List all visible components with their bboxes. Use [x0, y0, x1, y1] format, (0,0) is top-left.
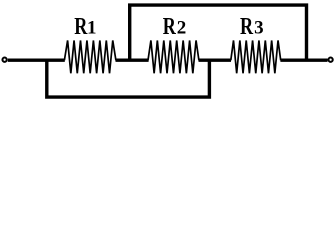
svg-text:R: R — [240, 13, 253, 40]
svg-text:2: 2 — [177, 17, 187, 38]
svg-text:R: R — [74, 13, 87, 40]
svg-text:1: 1 — [87, 17, 97, 38]
svg-text:R: R — [163, 13, 176, 40]
svg-text:3: 3 — [254, 17, 264, 38]
